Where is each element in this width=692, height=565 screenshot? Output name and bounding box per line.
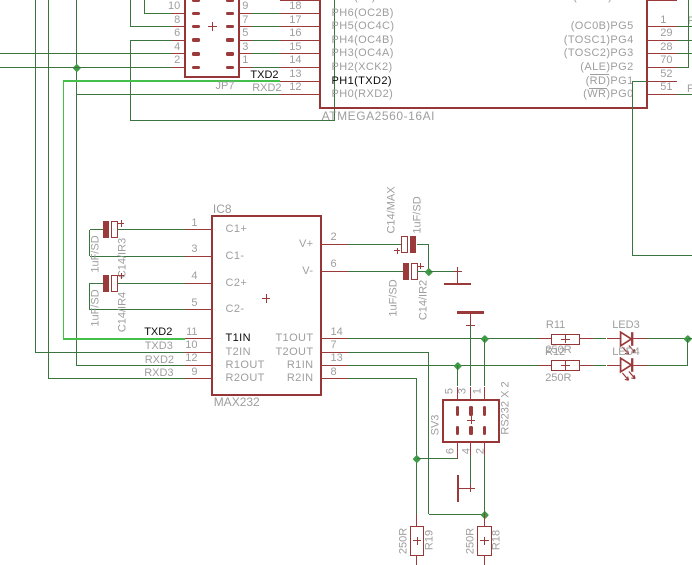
label 1uF/SD of C14/IR2 (rotated): [388, 280, 399, 317]
JP7 pad left: [192, 0, 200, 2]
capacitor C13 1uF/SD (C14/IR3): [103, 221, 109, 239]
MAX232 left pin numbers: [191, 218, 197, 229]
JP7 label: [216, 81, 235, 92]
label C14/IR3 (rotated): [117, 238, 128, 278]
wire GND2 down to SV3 pin 3: [470, 325, 471, 386]
JP7 pin stub right: [239, 67, 252, 68]
capacitor C14/IR2 1uF/SD: [403, 263, 409, 281]
wire C13 to pin C1+: [118, 229, 185, 230]
ATMEGA port G labels: [571, 21, 634, 32]
ground GND2 (bar on top): [457, 311, 484, 313]
ATMEGA clipped top-right label: [573, 0, 633, 3]
JP7 pin stub left: [172, 40, 185, 41]
JP7 pad right: [226, 25, 234, 28]
wire junction down to LED4 row: [687, 339, 688, 366]
wire JP7 pin 1 to ATMEGA: [252, 67, 280, 68]
JP7 pad right: [226, 52, 234, 55]
label C14/MAX (rotated): [386, 186, 397, 233]
IC8 label: [213, 203, 232, 215]
wire SV3 pin 2 down to junction: [484, 455, 485, 514]
wire V- to C14/IR2: [348, 271, 403, 272]
wire pin70 PG2 to vertical: [677, 67, 688, 68]
wire R1IN to R12: [348, 365, 538, 366]
wire net RXD2 vertical from top edge: [76, 0, 77, 365]
SV3 pad bottom: [483, 426, 486, 436]
JP7 pad left: [192, 25, 200, 28]
IC8 origin cross: [262, 298, 271, 299]
SV3 label (rotated): [431, 414, 442, 435]
wire SV3 pin 4 down to GND3: [470, 455, 471, 488]
wire JP7 pin 3 to ATMEGA: [252, 53, 280, 54]
RS232 X 2 label (rotated): [500, 381, 511, 434]
connector JP7 origin cross: [208, 26, 217, 27]
wire JP7 pin 5 to ATMEGA: [252, 40, 280, 41]
wire net TXD3 horizontal to MAX232 T2IN: [35, 352, 185, 353]
SV3 pad top: [456, 406, 459, 416]
name R12 of second resistor (overlapped): [545, 347, 565, 358]
JP7 pad right: [226, 66, 234, 69]
label 250R of R18 (rotated): [465, 528, 476, 554]
resistor R18 body: [477, 526, 492, 556]
LED4 cathode pin stub: [633, 365, 646, 366]
MAX232 left pin labels: [226, 224, 248, 235]
ATMEGA right pin stubs: [647, 0, 678, 1]
label LED4: [612, 347, 640, 358]
SV3 bottom pin stub 6: [457, 442, 458, 459]
label R19 (rotated): [424, 530, 435, 550]
SV3 pad top: [469, 406, 472, 416]
junction V- node: [425, 267, 433, 275]
MAX232 right pin numbers: [331, 232, 337, 243]
wire R11 to LED3: [593, 338, 607, 339]
wire net RXD3 horizontal to MAX232 R2OUT: [49, 378, 185, 379]
clipped net label at right edge: [688, 16, 692, 27]
resistor R19 body: [410, 526, 424, 556]
wire junction down to SV3 pin 1: [484, 339, 485, 387]
LED4: [618, 347, 644, 387]
label 250R of R19 (rotated): [398, 528, 409, 554]
JP7 pin stub right: [239, 0, 252, 1]
label 1uF/SD of C13 (rotated): [90, 235, 101, 272]
IC U1 ATMEGA2560-16AI body: [319, 0, 648, 109]
SV3 top pin stub: [457, 387, 458, 400]
wire net RXD2 horizontal to MAX232 R1OUT: [76, 365, 185, 366]
wire JP7 pin 6 down and under ATMEGA: [130, 40, 172, 41]
wire C14/MAX to junction: [417, 244, 429, 245]
wire to JP7 pin 2 from left edge: [0, 67, 172, 68]
junction R1IN / SV3 pin5: [454, 361, 462, 369]
wire net RXD3 vertical from top edge: [48, 0, 49, 379]
wire pin28 PG3 to right edge: [677, 53, 692, 54]
R11 right pin stub: [579, 338, 592, 339]
connector SV3 body: [442, 399, 500, 443]
LED3 anode pin stub: [607, 338, 620, 339]
R18 bottom pin stub: [484, 556, 485, 565]
JP7 pin stub right: [239, 53, 252, 54]
wire JP7 pin 8 to top edge: [130, 26, 172, 27]
SV3 origin cross: [467, 420, 475, 421]
JP7 pin stub left: [172, 26, 185, 27]
wire junction to GND1: [429, 271, 458, 272]
JP7 pin stub left: [172, 0, 185, 1]
wire JP7 pin 9 to ATMEGA: [252, 13, 280, 14]
overline WR: [589, 88, 607, 89]
wire T1OUT to R11: [348, 338, 538, 339]
wire net RXD2 horizontal to ATMEGA PH0 pin 12: [76, 94, 279, 95]
SV3 bottom pin numbers 6 4 2 (rotated): [445, 448, 456, 454]
wire net TXD3 vertical from top edge: [35, 0, 36, 352]
JP7 pin stub left: [172, 67, 185, 68]
value 250R of R12: [545, 373, 571, 384]
JP7 pad left: [192, 38, 200, 41]
JP7 pad right: [226, 12, 234, 15]
wire LED4 cathode loop: [647, 365, 688, 366]
capacitor C14/MAX 1uF/SD: [401, 236, 408, 254]
connector JP7 body: [184, 0, 240, 78]
net label RXD2 at JP7: [252, 83, 281, 94]
SV3 pad top: [483, 406, 486, 416]
R19 bottom pin stub: [416, 556, 417, 565]
wire C14/IR2 to junction: [417, 271, 429, 272]
JP7 pin stub right: [239, 13, 252, 14]
R18 top pin stub: [484, 514, 485, 527]
net label TXD2 at JP7 (black): [250, 70, 278, 81]
junction SV3 pin2 / R18: [481, 510, 489, 518]
SV3 pad bottom: [456, 426, 459, 436]
label C14/IR4 (rotated): [117, 291, 128, 331]
SV3 top pin numbers 5 3 1 (rotated): [444, 388, 455, 394]
LED3 cathode pin stub: [633, 338, 646, 339]
label 1uF/SD of C14/MAX (rotated): [413, 196, 424, 233]
net label RXD2: [145, 355, 174, 366]
ATMEGA left pin stubs: [280, 0, 321, 1]
MAX232 right pin labels: [299, 239, 314, 250]
label LED3: [612, 320, 640, 331]
resistor R12 body: [551, 360, 580, 371]
JP7 pad left: [192, 66, 200, 69]
wire JP7 pin 10 to top edge: [145, 13, 172, 14]
value 250R of R11 (overlapped): [545, 345, 571, 356]
IC name label ATMEGA2560-16AI: [322, 110, 435, 122]
ATMEGA right pin numbers: [660, 15, 666, 26]
label 1uF/SD of C14/IR4 (rotated): [90, 289, 101, 326]
R12 left pin stub: [538, 365, 551, 366]
ATMEGA left pin numbers 18-12: [289, 1, 301, 12]
SV3 bottom pin stub 4: [470, 442, 471, 455]
wire junction down to SV3 pin 5: [457, 365, 458, 386]
ground GND3 (pointing left): [467, 488, 475, 489]
R11 left pin stub: [538, 338, 551, 339]
IC8 MAX232 body: [211, 215, 322, 396]
LED4 anode pin stub: [607, 365, 620, 366]
wire junction to right edge: [688, 338, 692, 339]
junction LED3 node: [684, 335, 692, 343]
label R11: [546, 320, 565, 331]
JP7 pin stub left: [172, 13, 185, 14]
wire vertical x=334.6 from top edge crossing ATMEGA: [334, 0, 335, 121]
SV3 pad bottom: [469, 426, 472, 436]
junction SV3 pin6 branch: [413, 455, 421, 463]
JP7 pin numbers right: [242, 1, 248, 12]
net label RXD3: [144, 368, 173, 379]
wire pin51 PG0 to right edge: [677, 94, 692, 95]
JP7 pad right: [226, 38, 234, 41]
wire R2IN right then down to R19: [348, 378, 417, 379]
ATMEGA clipped top-left label PH7: [332, 0, 376, 3]
label R18 (rotated): [491, 530, 502, 550]
ground GND1 near caps: [454, 271, 462, 272]
JP7 pad left: [192, 52, 200, 55]
R12 right pin stub: [579, 365, 592, 366]
R19 top pin stub: [416, 514, 417, 527]
MAX232 right pin stubs: [321, 244, 349, 245]
capacitor C14/IR4 1uF/SD: [103, 275, 109, 293]
SV3 top pin stub: [484, 387, 485, 400]
wire C14/IR4 left loop to C2-: [90, 283, 103, 284]
wire C13 left loop to C1-: [90, 229, 103, 230]
JP7 pin numbers left: [168, 1, 180, 12]
JP7 pin stub left: [172, 53, 185, 54]
label C14/IR2 (rotated): [419, 280, 430, 320]
clipped net label at pin51: [687, 84, 692, 95]
junction T1OUT / SV3 pin1: [481, 335, 489, 343]
junction RXD2 / JP7 pin 2: [72, 63, 80, 71]
wire pin29 PG4 to right edge: [677, 40, 692, 41]
SV3 bottom pin stub 2: [484, 442, 485, 455]
wire JP7 pin 7 to ATMEGA: [252, 26, 280, 27]
wire C14/IR4 to pin C2+: [118, 283, 185, 284]
net label TXD3: [145, 341, 173, 352]
JP7 pad right: [226, 0, 234, 2]
wire pin1 PG5 to right edge: [677, 26, 692, 27]
ATMEGA port H labels: [332, 8, 394, 19]
LED3: [618, 321, 644, 361]
wire LED3 cathode to junction: [647, 338, 688, 339]
wire net TXD2 bright (PH1 to T1IN): [63, 80, 279, 82]
resistor R11 body: [551, 334, 580, 345]
SV3 top pin stub: [470, 387, 471, 400]
net label TXD2 at MAX232 (black): [144, 327, 172, 338]
wire V+ to C14/MAX: [348, 244, 401, 245]
wire T2OUT right then down: [348, 352, 429, 353]
JP7 pad left: [192, 12, 200, 15]
MAX232 label: [214, 396, 260, 408]
MAX232 left pin stubs: [185, 229, 212, 230]
JP7 pin stub right: [239, 40, 252, 41]
wire junction to SV3 pin 6: [417, 458, 458, 459]
overline RD: [590, 74, 609, 75]
wire to JP7 pin 4 from left edge: [0, 53, 172, 54]
wire net PG1 from pin52 down to right edge: [633, 81, 647, 82]
wire R12 to LED4: [593, 365, 607, 366]
JP7 pin stub right: [239, 26, 252, 27]
wire bottom run to R18 node: [429, 514, 485, 515]
